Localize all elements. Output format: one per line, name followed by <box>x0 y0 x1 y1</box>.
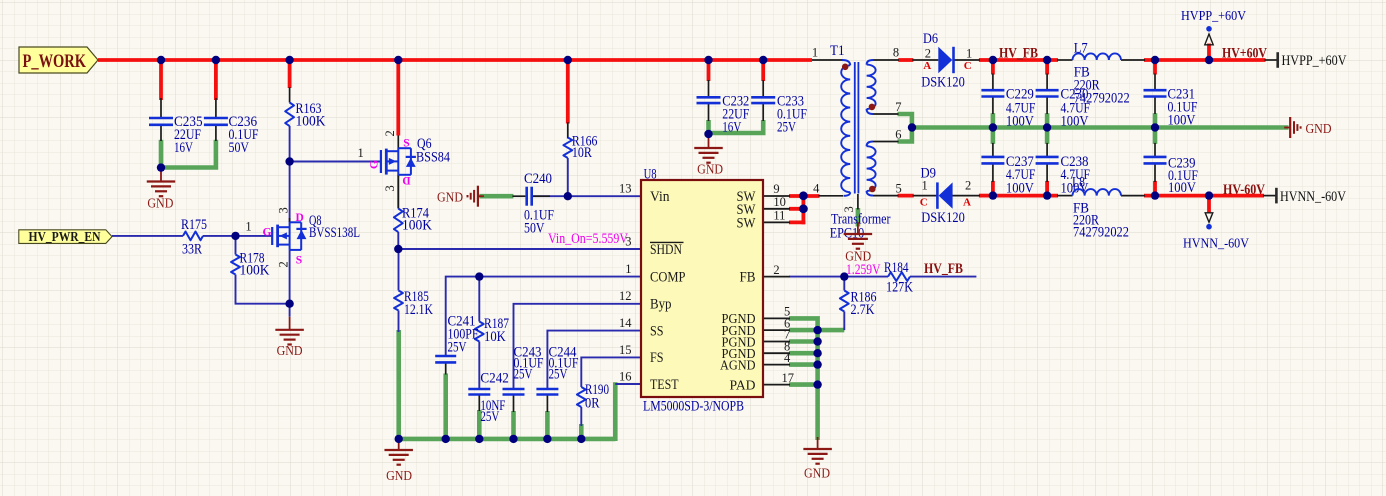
wire PGND pin5 <box>789 318 818 330</box>
wire TEST pin16 <box>615 383 641 385</box>
wire stub R166 to bus <box>566 58 570 124</box>
net label HV-60V <box>1223 182 1265 198</box>
svg-text:16V: 16V <box>174 140 193 156</box>
svg-text:C: C <box>964 60 972 72</box>
pin lead L8 <box>1057 195 1145 197</box>
wire transformer pin8 to D6 anode <box>898 58 913 62</box>
ground symbol at PGND bus <box>803 437 832 482</box>
svg-text:SS: SS <box>650 323 664 339</box>
capacitor C236 <box>204 114 259 156</box>
svg-text:25V: 25V <box>480 409 499 425</box>
wire R190 gnd stub <box>579 424 584 441</box>
svg-text:D: D <box>296 212 304 224</box>
svg-text:HV_PWR_EN: HV_PWR_EN <box>29 229 101 244</box>
wire stub R163 to bus <box>288 58 292 88</box>
wire COMP node to R187 <box>478 277 480 322</box>
pin lead D6 anode <box>912 59 938 61</box>
pin names U8 left <box>650 189 686 393</box>
pin stubs IC right side <box>763 196 790 385</box>
pin lead C236 <box>215 98 217 141</box>
wire SW pin9 to transformer pin4 <box>789 194 820 198</box>
pin lead port HVPP <box>1265 59 1278 61</box>
junction <box>543 435 551 443</box>
wire node to Q8 gate <box>236 235 273 237</box>
diode D6 <box>921 31 965 91</box>
port HVPP_+60V <box>1278 52 1347 69</box>
pin lead transformer pin8 <box>873 59 900 61</box>
capacitor C241 <box>435 314 478 363</box>
svg-text:BSS84: BSS84 <box>416 150 450 166</box>
svg-text:8: 8 <box>893 46 899 60</box>
wire R166 to Vin node <box>567 158 569 196</box>
svg-text:2: 2 <box>276 261 290 267</box>
wire Vin node to pin13 <box>568 195 641 197</box>
svg-text:15: 15 <box>619 343 632 357</box>
wire C241 gnd stub <box>443 364 448 442</box>
svg-text:4: 4 <box>784 351 791 365</box>
svg-text:100V: 100V <box>1168 112 1196 128</box>
svg-text:T1: T1 <box>830 43 845 59</box>
wire SW pin10 jog <box>789 194 805 210</box>
svg-text:GND: GND <box>437 191 463 206</box>
svg-text:1.259V: 1.259V <box>846 262 881 278</box>
svg-text:100V: 100V <box>1006 114 1034 130</box>
svg-text:25V: 25V <box>549 367 568 383</box>
svg-text:14: 14 <box>619 316 632 330</box>
capacitor C244 <box>536 344 578 394</box>
svg-text:100K: 100K <box>240 263 270 279</box>
wire analog ground bus bottom <box>399 437 616 442</box>
resistor R184 <box>884 260 913 296</box>
capacitor C231 <box>1144 87 1198 129</box>
wire SS pin14 elbow to C244 <box>547 331 641 389</box>
junction <box>704 56 712 64</box>
junction <box>157 163 165 171</box>
ground power symbol at C240 <box>437 186 484 207</box>
wire SHDN node to R185 <box>398 249 400 291</box>
wire PAD pin17 <box>789 382 820 387</box>
wire C229 gnd stub <box>991 113 996 129</box>
junction <box>285 157 293 165</box>
pin lead C235 <box>160 98 162 141</box>
wire C237 gnd stub <box>991 126 996 144</box>
junction <box>442 435 450 443</box>
pin lead D6 cathode <box>954 59 980 61</box>
wire secondary ground bus <box>912 125 1289 130</box>
wire C235 gnd <box>159 140 164 168</box>
junction <box>813 326 821 334</box>
junction <box>813 349 821 357</box>
junction <box>1151 56 1159 64</box>
svg-text:127K: 127K <box>886 280 913 296</box>
svg-text:HVNN_-60V: HVNN_-60V <box>1280 189 1346 205</box>
wire COMP node to C241 elbow <box>446 277 480 356</box>
svg-text:17: 17 <box>782 371 795 385</box>
junction <box>394 245 402 253</box>
junction <box>157 56 165 64</box>
pin lead port HVNN <box>1263 195 1276 197</box>
pin lead C232 <box>708 80 710 121</box>
capacitor C233 <box>751 94 807 136</box>
junction <box>1043 56 1051 64</box>
svg-text:3: 3 <box>842 206 856 212</box>
pin lead transformer pin1 <box>812 59 842 61</box>
svg-text:C240: C240 <box>524 171 552 187</box>
svg-text:D6: D6 <box>923 31 938 47</box>
wire transformer pin5 to D9 cathode <box>898 194 914 198</box>
pin lead transformer pin6 <box>873 141 899 143</box>
svg-text:100V: 100V <box>1061 114 1089 130</box>
wire P_WORK top power bus <box>98 58 812 62</box>
wire node to R186 <box>843 277 845 291</box>
svg-text:DSK120: DSK120 <box>921 75 965 91</box>
wire stub HVPP_+60V power port <box>1207 44 1211 63</box>
power port HVPP_+60V top <box>1181 9 1246 45</box>
wire C236 gnd elbow <box>161 140 216 168</box>
capacitor C235 <box>149 114 203 156</box>
transformer T1 <box>830 43 891 241</box>
capacitor C232 <box>697 94 750 136</box>
svg-text:1: 1 <box>812 46 818 60</box>
svg-text:FB: FB <box>740 269 756 285</box>
port HVNN_-60V <box>1276 188 1346 205</box>
pin lead R166 <box>567 122 569 139</box>
wire L7 to HV+60V rail <box>1144 58 1266 62</box>
transistor Q8 BVSS138L <box>272 213 360 250</box>
svg-text:13: 13 <box>619 182 632 196</box>
pin lead C240 right <box>533 195 550 197</box>
capacitor C238 <box>1036 154 1090 197</box>
junction <box>813 380 821 388</box>
wire C232 gnd <box>706 120 711 136</box>
resistor R163 <box>285 101 325 130</box>
svg-text:C242: C242 <box>480 371 509 387</box>
wire PGND pin7 <box>789 339 820 344</box>
junction <box>285 56 293 64</box>
svg-text:3: 3 <box>383 185 397 191</box>
junction <box>1043 123 1051 131</box>
svg-text:25V: 25V <box>448 340 467 356</box>
svg-text:10K: 10K <box>484 329 506 345</box>
capacitor C240 <box>524 171 554 237</box>
svg-text:HV+60V: HV+60V <box>1222 46 1267 62</box>
svg-text:GND: GND <box>277 344 303 359</box>
svg-text:2: 2 <box>773 263 779 277</box>
wire stub HVNN_-60V power port <box>1207 194 1211 213</box>
svg-text:L8: L8 <box>1072 174 1085 190</box>
pin labels D9 <box>920 179 972 209</box>
ground symbol at C232/C233 <box>694 135 723 178</box>
wire FB pin2 to node <box>789 276 844 278</box>
resistor R175 <box>181 217 207 258</box>
svg-text:3: 3 <box>276 207 290 213</box>
svg-text:100K: 100K <box>296 114 326 130</box>
svg-text:10: 10 <box>773 195 786 209</box>
wire node to Q8 drain <box>289 162 291 223</box>
pin lead D9 cathode <box>913 195 938 197</box>
svg-text:LM5000SD-3/NOPB: LM5000SD-3/NOPB <box>643 399 744 415</box>
svg-text:742792022: 742792022 <box>1073 224 1129 240</box>
ground symbol at C235/C236 <box>147 169 176 212</box>
wire C240 to Vin node <box>533 195 568 197</box>
wire stub C231 <box>1153 58 1157 75</box>
resistor R185 <box>394 289 433 318</box>
svg-text:16: 16 <box>619 369 632 383</box>
pin lead R163 <box>289 87 291 103</box>
svg-text:50V: 50V <box>524 221 545 237</box>
pin lead transformer pin7 <box>873 113 899 115</box>
pin names U8 right <box>720 189 756 393</box>
wire C243 gnd stub <box>511 395 516 441</box>
wire Q8 source to gnd node <box>289 250 291 317</box>
svg-text:Vin_On=5.559V: Vin_On=5.559V <box>548 231 628 247</box>
junction <box>989 56 997 64</box>
pin lead C239 <box>1154 143 1156 182</box>
wire stub C239 bottom <box>1153 181 1157 198</box>
svg-text:12.1K: 12.1K <box>404 302 433 318</box>
wire C240 gnd lead <box>479 194 513 199</box>
pin lead C230 <box>1046 74 1048 115</box>
junction <box>509 435 517 443</box>
svg-text:GND: GND <box>147 197 173 212</box>
junction <box>577 435 585 443</box>
wire PGND pin8 <box>789 351 820 356</box>
wire stub C229 <box>991 58 995 75</box>
inductor L8 <box>1072 174 1129 240</box>
svg-text:HVPP_+60V: HVPP_+60V <box>1282 53 1347 69</box>
svg-text:2: 2 <box>383 130 397 136</box>
wire R185 gnd <box>396 330 401 441</box>
svg-text:5: 5 <box>895 181 901 195</box>
junction <box>908 123 916 131</box>
junction <box>1205 56 1213 64</box>
ground symbol at transformer pin3 <box>844 222 873 265</box>
wire PGND pin6 to R186 <box>789 328 844 333</box>
pin lead transformer pin4 <box>819 195 844 197</box>
svg-text:100K: 100K <box>402 218 432 234</box>
transistor Q6 BSS84 <box>381 136 450 178</box>
junction <box>813 360 821 368</box>
wire C239 gnd stub <box>1153 126 1158 144</box>
svg-text:L7: L7 <box>1074 40 1088 56</box>
pin lead L7 <box>1057 59 1145 61</box>
svg-text:100V: 100V <box>1006 181 1034 197</box>
junction <box>231 232 239 240</box>
svg-text:HVPP_+60V: HVPP_+60V <box>1181 9 1246 24</box>
svg-text:HVNN_-60V: HVNN_-60V <box>1183 237 1249 252</box>
wire C242 gnd stub <box>477 395 482 441</box>
pin lead D9 anode <box>952 195 980 197</box>
junction <box>475 435 483 443</box>
svg-text:GND: GND <box>386 469 412 484</box>
svg-text:A: A <box>923 60 931 72</box>
wire PGND vertical bus to gnd <box>815 328 820 440</box>
parameter text Vin_On <box>548 231 628 247</box>
svg-text:AGND: AGND <box>720 358 756 373</box>
svg-text:6: 6 <box>895 128 901 142</box>
junction <box>564 56 572 64</box>
ground symbol at analog ground bus <box>384 437 413 484</box>
capacitor C229 <box>981 86 1035 129</box>
svg-text:33R: 33R <box>182 242 202 258</box>
wire SHDN node to pin3 <box>398 248 641 250</box>
wire stub C236 to bus <box>214 58 218 100</box>
svg-text:D: D <box>402 174 410 186</box>
svg-text:10R: 10R <box>572 145 592 161</box>
svg-text:16V: 16V <box>722 120 741 136</box>
svg-text:FS: FS <box>650 350 664 366</box>
svg-text:GND: GND <box>697 163 723 178</box>
svg-text:U8: U8 <box>644 167 657 183</box>
junction <box>285 300 293 308</box>
wire HV_FB node to L7 <box>993 58 1058 62</box>
svg-text:GND: GND <box>804 467 830 482</box>
net flag P_WORK <box>19 47 98 73</box>
wire C230 gnd stub <box>1045 113 1050 129</box>
svg-text:R175: R175 <box>181 217 207 233</box>
net label HV_FB top <box>999 46 1038 62</box>
wire C231 gnd stub <box>1153 113 1158 129</box>
svg-text:DSK120: DSK120 <box>921 210 965 226</box>
capacitor C242 <box>468 371 509 426</box>
svg-text:G: G <box>369 160 381 169</box>
pin lead transformer pin3 <box>857 194 859 210</box>
svg-text:12: 12 <box>619 289 632 303</box>
pin numbers U8 left <box>619 182 632 384</box>
svg-text:HV-60V: HV-60V <box>1223 182 1265 198</box>
pin lead transformer pin5 <box>873 195 899 197</box>
wire C244 gnd stub <box>545 395 550 441</box>
wire C238 gnd stub <box>1045 126 1050 144</box>
wire stub C237 bottom <box>991 181 995 198</box>
wire R163 bottom to node <box>289 126 291 162</box>
svg-text:1: 1 <box>358 146 364 160</box>
svg-text:A: A <box>963 197 971 209</box>
pin labels Q6 <box>358 130 411 191</box>
wire stub C230 <box>1045 58 1049 75</box>
wire stub C233 to bus <box>761 58 765 81</box>
svg-text:1: 1 <box>245 220 251 234</box>
wire AGND pin4 <box>789 362 820 367</box>
junction <box>1043 191 1051 199</box>
svg-text:P_WORK: P_WORK <box>23 51 87 72</box>
wire R186 to PGND row <box>843 312 845 331</box>
net label HV_FB at R184 <box>924 261 963 277</box>
resistor R178 <box>231 251 270 279</box>
svg-text:4: 4 <box>813 181 820 195</box>
junction <box>704 130 712 138</box>
ground power symbol at secondary bus right end <box>1284 117 1331 138</box>
junction <box>564 192 572 200</box>
pin lead C229 <box>992 74 994 115</box>
wire SW pin11 jog <box>789 207 805 224</box>
svg-text:GND: GND <box>1306 122 1332 137</box>
wire R178 bottom elbow to Q8 source node <box>236 275 290 304</box>
svg-text:0R: 0R <box>585 396 600 412</box>
junction <box>1151 191 1159 199</box>
junction <box>840 272 848 280</box>
pin lead Q8 drain tail <box>289 218 291 222</box>
wire Q6 drain to R174 <box>397 175 399 209</box>
wire R190 bottom <box>580 407 582 426</box>
wire stub C238 bottom <box>1045 181 1049 198</box>
junction <box>989 191 997 199</box>
svg-text:HV_FB: HV_FB <box>924 261 963 277</box>
wire FS pin15 elbow to R190 <box>581 357 641 387</box>
wire R175 to node <box>203 235 236 237</box>
wire R187 to C242 <box>478 342 480 390</box>
wire node to L8 <box>993 194 1058 198</box>
wire D6 cathode to HV_FB node <box>979 58 993 62</box>
pin labels D6 <box>923 46 972 72</box>
svg-text:Vin: Vin <box>650 189 670 205</box>
pin labels Q8 <box>245 207 303 267</box>
pin lead C238 <box>1046 143 1048 182</box>
svg-text:1: 1 <box>922 179 928 193</box>
pin lead C240 left <box>512 195 525 197</box>
svg-text:Byp: Byp <box>650 297 672 313</box>
pin numbers transformer <box>812 46 902 213</box>
junction <box>395 435 403 443</box>
junction <box>799 191 808 200</box>
wire R184 to HV_FB label <box>910 276 976 278</box>
svg-text:100V: 100V <box>1168 180 1196 196</box>
svg-text:HV_FB: HV_FB <box>999 46 1038 62</box>
junction <box>394 56 402 64</box>
pin lead C233 <box>762 80 764 121</box>
wire node to Q6 gate <box>290 161 381 163</box>
inductor L7 <box>1073 40 1130 106</box>
svg-text:1: 1 <box>625 262 631 276</box>
wire R185 to gnd wire <box>398 311 400 333</box>
power port HVNN_-60V bottom <box>1183 213 1249 252</box>
wire COMP pin1 to node <box>479 276 641 278</box>
resistor R166 <box>563 134 597 162</box>
svg-text:R184: R184 <box>884 260 909 276</box>
pin lead C237 <box>992 143 994 182</box>
op-amp U8 LM5000SD-3/NOPB body <box>641 167 763 415</box>
wire TEST gnd elbow <box>613 382 618 441</box>
svg-text:S: S <box>296 255 302 267</box>
capacitor C239 <box>1144 156 1199 196</box>
resistor R174 <box>394 206 432 234</box>
wire transformer pin3 gnd <box>856 208 861 227</box>
parameter text 1.259V <box>846 262 881 278</box>
wire L8 to HV-60V rail <box>1144 194 1264 198</box>
svg-text:G: G <box>263 227 272 239</box>
pin numbers U8 right <box>773 182 794 385</box>
capacitor C230 <box>1036 86 1090 129</box>
wire HV_PWR_EN to R175 <box>112 235 183 237</box>
net flag HV_PWR_EN <box>19 229 112 244</box>
pin lead C231 <box>1154 74 1156 115</box>
svg-text:COMP: COMP <box>650 269 686 285</box>
wire R174 to SHDN node <box>397 232 399 249</box>
ground symbol at Q8 source <box>275 317 304 359</box>
wire D9 anode to node <box>979 194 993 198</box>
wire stub C235 to bus <box>159 58 163 100</box>
svg-text:BVSS138L: BVSS138L <box>309 225 360 241</box>
junction <box>212 56 220 64</box>
resistor R186 <box>840 290 877 319</box>
capacitor C243 <box>503 344 544 394</box>
svg-text:1: 1 <box>966 46 972 60</box>
svg-text:11: 11 <box>773 209 785 223</box>
wire secondary centertap elbows pins 7 and 6 <box>898 114 912 142</box>
diode D9 <box>921 165 965 225</box>
junction <box>1205 191 1213 199</box>
wire C233 gnd elbow <box>709 120 764 133</box>
